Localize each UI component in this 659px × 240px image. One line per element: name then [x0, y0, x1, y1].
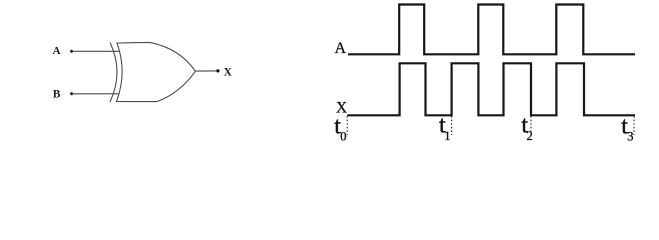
svg-text:B: B	[53, 89, 61, 101]
svg-text:X: X	[224, 66, 233, 78]
wire B input	[72, 93, 119, 95]
marker t0 dotted line	[346, 116, 348, 135]
wire A input	[72, 50, 120, 52]
input terminal A dot	[70, 50, 73, 53]
wire X output	[195, 70, 218, 72]
marker t2 dotted line	[530, 116, 532, 135]
marker t1 dotted line	[451, 116, 453, 135]
waveform A trace	[348, 5, 635, 55]
svg-text:3: 3	[627, 129, 633, 143]
svg-text:2: 2	[527, 129, 533, 143]
svg-text:A: A	[335, 40, 347, 57]
output terminal X dot	[216, 69, 219, 72]
XOR gate U1 body	[117, 42, 196, 101]
svg-text:A: A	[53, 45, 61, 57]
svg-text:1: 1	[444, 129, 450, 143]
waveform X trace	[347, 63, 635, 115]
XOR gate U1 extra input curve	[110, 43, 117, 103]
input terminal B dot	[70, 92, 73, 95]
marker t3 dotted line	[633, 116, 635, 135]
svg-text:0: 0	[340, 130, 346, 144]
